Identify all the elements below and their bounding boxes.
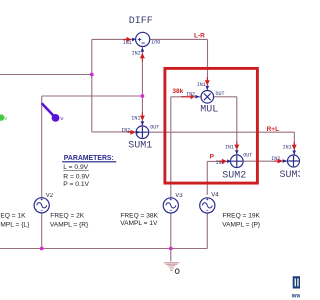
svg-text:L = 0.9V: L = 0.9V — [63, 164, 88, 171]
wire V4 up to P corner — [206, 161, 208, 194]
multiplier MUL — [181, 77, 225, 115]
svg-text:OUT: OUT — [150, 124, 159, 130]
svg-text:ww: ww — [291, 293, 300, 299]
summer SUM2 — [216, 142, 253, 182]
net label P — [210, 153, 215, 160]
wire R horizontal to DIFF/SUM1 column — [42, 95, 143, 97]
svg-text:IN1: IN1 — [131, 116, 140, 122]
wire corner down to MUL IN1 — [207, 39, 209, 90]
probe marker purple v — [42, 104, 63, 122]
probe marker green v — [0, 114, 7, 122]
svg-text:PARAMETERS:: PARAMETERS: — [64, 155, 114, 162]
ground 0 — [164, 249, 180, 274]
svg-text:MUL: MUL — [200, 105, 218, 116]
svg-text:OUT: OUT — [243, 153, 252, 159]
svg-text:VAMPL = {P}: VAMPL = {P} — [222, 221, 261, 228]
svg-text:FREQ = 38K: FREQ = 38K — [120, 213, 158, 220]
wire L vertical bus — [91, 39, 93, 131]
value label V1 FREQ (cropped at left edge) — [0, 213, 30, 229]
svg-text:IN1: IN1 — [283, 145, 292, 151]
svg-text:FREQ = 2K: FREQ = 2K — [50, 213, 84, 220]
watermark logo (cropped bottom-right) — [291, 276, 302, 299]
svg-text:DIFF: DIFF — [129, 16, 153, 27]
svg-text:SUM2: SUM2 — [222, 170, 246, 181]
svg-text:EQ = 1K: EQ = 1K — [0, 213, 26, 220]
svg-text:V3: V3 — [175, 193, 183, 199]
svg-text:IN1: IN1 — [225, 144, 234, 150]
summer SUM1 — [121, 113, 159, 152]
highlight box (red rectangle) — [165, 68, 258, 183]
wire V3 up to MUL row — [170, 97, 172, 198]
svg-text:MPL = {L}: MPL = {L} — [0, 221, 30, 228]
source V2 — [34, 193, 54, 213]
svg-text:VAMPL = {R}: VAMPL = {R} — [50, 221, 89, 228]
source V3 — [163, 193, 183, 213]
source V4 — [200, 192, 220, 213]
summer SUM3 — [271, 142, 303, 181]
svg-text:SUM1: SUM1 — [128, 140, 152, 151]
wire L input horizontal from left edge — [0, 74, 92, 76]
svg-text:R+L: R+L — [267, 126, 279, 133]
svg-text:VAMPL = 1V: VAMPL = 1V — [120, 220, 158, 227]
svg-text:V2: V2 — [46, 193, 54, 199]
svg-text:OUT: OUT — [216, 91, 225, 97]
svg-text:R = 0.9V: R = 0.9V — [63, 174, 90, 181]
svg-text:FREQ = 19K: FREQ = 19K — [222, 213, 260, 220]
wire V3 corner to MUL IN2 — [171, 96, 201, 98]
op-amp U1 DIFF — [123, 16, 161, 62]
wire SUM2 OUT to SUM3 IN2 — [243, 160, 288, 162]
svg-text:v: v — [4, 116, 7, 122]
svg-text:IN2: IN2 — [121, 128, 130, 134]
svg-text:v: v — [60, 116, 63, 122]
net label 38k — [172, 88, 183, 95]
wire V3 down to ground bus — [170, 213, 172, 249]
wire P corner to SUM2 IN2 — [207, 160, 230, 162]
svg-text:OUT: OUT — [151, 38, 160, 44]
node R junction — [141, 94, 145, 98]
svg-text:IN2: IN2 — [132, 51, 141, 57]
svg-text:P: P — [210, 153, 215, 160]
value label V4 FREQ — [222, 213, 261, 229]
svg-text:38k: 38k — [172, 88, 183, 95]
wire corner down to SUM2 IN1 — [236, 97, 238, 155]
wire ground bus horizontal — [0, 248, 207, 250]
value label V3 FREQ — [120, 213, 158, 228]
svg-text:P = 0.1V: P = 0.1V — [63, 181, 89, 188]
wire DIFF OUT to corner — [149, 38, 207, 40]
wire V4 down to bus corner — [206, 213, 208, 249]
svg-text:SUM3: SUM3 — [280, 170, 301, 181]
node L junction — [90, 73, 94, 77]
svg-text:L-R: L-R — [194, 32, 205, 39]
net label L-R — [194, 32, 205, 39]
parameters block — [62, 155, 116, 188]
wire L to SUM1 IN2 — [92, 131, 137, 133]
wire SUM1 OUT long horizontal R+L — [149, 131, 295, 133]
wire DIFF IN2 / SUM1 IN1 vertical — [141, 46, 143, 126]
wire MUL OUT to corner — [214, 96, 237, 98]
value label V2 FREQ — [50, 213, 89, 229]
net label R+L — [267, 126, 279, 133]
wire corner down to SUM3 IN1 — [293, 132, 295, 155]
wire L to DIFF IN1 — [92, 38, 136, 40]
node ground junction V3 — [169, 247, 173, 251]
wire V2 down to ground bus — [41, 213, 43, 249]
svg-text:V4: V4 — [211, 192, 219, 198]
wire R from V2 up — [41, 96, 43, 198]
node ground junction V2 — [40, 247, 44, 251]
svg-text:IN1: IN1 — [197, 82, 206, 88]
